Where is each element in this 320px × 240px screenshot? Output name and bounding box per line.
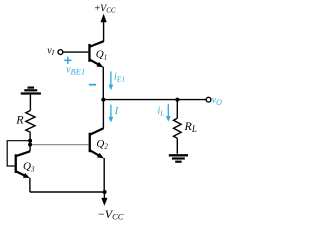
input terminal circle xyxy=(58,50,63,55)
wire: RL bottom to ground xyxy=(176,138,178,154)
ground symbol (inverted, above R) xyxy=(21,88,41,94)
-VCC arrow xyxy=(101,192,107,206)
current iL arrow xyxy=(166,104,171,122)
resistor R xyxy=(26,111,35,133)
svg-text:vO: vO xyxy=(212,95,222,107)
wire: output node down to Q2 collector xyxy=(102,100,104,129)
transistor Q2 xyxy=(89,128,104,158)
current iE1 arrow xyxy=(109,71,114,90)
wire: vI to Q1 base xyxy=(63,51,88,53)
current I arrow (bias current) xyxy=(109,105,114,123)
node: RL junction xyxy=(175,98,179,102)
+VCC supply label xyxy=(95,4,116,15)
wire: Q1 emitter down to output node xyxy=(102,67,104,100)
wire: diode-connect loop (Q3 base to collector node) xyxy=(7,141,30,166)
wire: Q1 collector to +VCC with arrow xyxy=(101,14,107,42)
svg-text:R: R xyxy=(15,113,24,127)
wire: bottom rail to -VCC node xyxy=(30,191,105,193)
vBE1 polarity minus xyxy=(89,84,96,86)
wire: node to RL top xyxy=(176,100,178,119)
transistor Q3 xyxy=(15,151,30,178)
svg-text:I: I xyxy=(114,106,119,117)
wire: output node to vO terminal xyxy=(103,99,206,101)
wire: R bottom through mirror nodes to Q3 collector xyxy=(29,132,31,151)
node: emitter/-VCC junction xyxy=(103,190,107,194)
node: output junction xyxy=(101,98,105,102)
node: R / loop junction xyxy=(28,139,32,143)
wire: ground to R top xyxy=(29,94,31,111)
vBE1 polarity plus xyxy=(64,57,71,64)
wire: Q3 emitter down xyxy=(29,178,31,192)
output terminal circle xyxy=(206,97,211,102)
wire: Q2 emitter down to -VCC xyxy=(103,158,105,192)
wire: mirror node to Q2 base (gray) xyxy=(30,144,89,146)
ground (below RL) xyxy=(169,155,188,161)
resistor RL xyxy=(174,118,182,138)
node: Q2 base wire junction xyxy=(28,143,32,147)
transistor Q1 xyxy=(88,41,103,67)
